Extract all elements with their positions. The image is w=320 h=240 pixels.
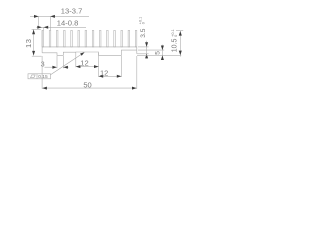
svg-text:12: 12: [100, 68, 108, 77]
dimension 13 (overall height): [33, 29, 35, 55]
dimension 5 (right recess): [138, 49, 164, 51]
svg-text:10.5: 10.5: [171, 38, 178, 52]
dimension 3.5+0.1/0 (right step height): [138, 46, 149, 48]
flatness tolerance frame 0.15: [28, 74, 51, 79]
svg-text:3: 3: [41, 59, 45, 68]
svg-text:0: 0: [174, 35, 178, 37]
dimension 3 (foot width): [45, 66, 53, 68]
dimension 12 (pad width): [98, 67, 100, 77]
svg-text:5: 5: [154, 51, 161, 55]
svg-text:0.15: 0.15: [38, 74, 48, 80]
svg-text:12: 12: [80, 59, 88, 68]
svg-text:14-0.8: 14-0.8: [57, 19, 79, 28]
dimension 14-0.8 (fin thickness): [37, 26, 87, 28]
dimension 10.5+0.1/0 (height to slot): [176, 30, 183, 32]
dimension 12 (channel width): [76, 66, 99, 68]
svg-text:13-3.7: 13-3.7: [61, 6, 83, 15]
svg-text:13: 13: [24, 39, 33, 48]
dimension 13-3.7 (fin pitch): [30, 15, 89, 17]
dimension 50 (overall width): [41, 56, 43, 89]
heatsink profile: base outline: [42, 30, 137, 55]
svg-text:0: 0: [141, 22, 145, 24]
heatsink profile: fins: [42, 30, 137, 47]
svg-text:3.5: 3.5: [140, 28, 147, 37]
flatness leader: [51, 52, 85, 74]
svg-text:50: 50: [83, 81, 91, 90]
